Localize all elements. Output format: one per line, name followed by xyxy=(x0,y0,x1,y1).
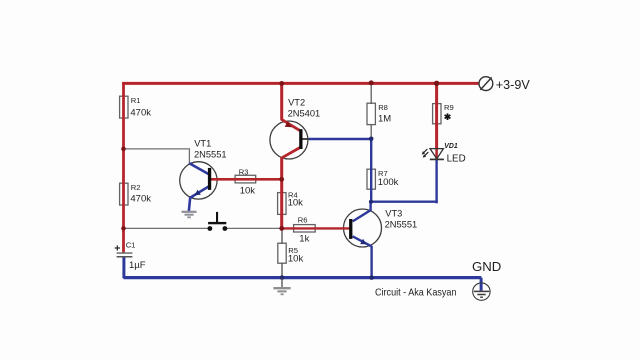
wire: gray R8 top lead from +V rail xyxy=(370,83,372,104)
junction node: top rail / R9 xyxy=(434,81,439,86)
wire: blue VT3 emitter to bottom rail xyxy=(370,246,372,278)
wire: red VT1 base through R3 to x=282 node xyxy=(211,178,283,181)
wire: gray button wire from left rail to node under R4 xyxy=(124,227,211,229)
svg-text:10k: 10k xyxy=(240,186,256,197)
transistor VT3 emitter lead (blue diagonal) xyxy=(353,236,372,246)
svg-text:GND: GND xyxy=(472,259,501,274)
wire: black VT2 base stub xyxy=(302,138,310,140)
svg-text:470k: 470k xyxy=(130,107,151,118)
ground symbol below R5 on bottom rail xyxy=(273,278,290,294)
svg-text:+3-9V: +3-9V xyxy=(496,78,531,92)
junction node: top rail / R8 xyxy=(369,80,374,85)
wire: left rail (red) from top rail to C1 xyxy=(122,82,125,252)
svg-text:R2: R2 xyxy=(131,183,141,192)
wire: blue vertical through R7 xyxy=(370,139,372,203)
svg-text:VT1: VT1 xyxy=(194,138,211,148)
GND terminal (circle with earth) xyxy=(473,283,490,300)
svg-text:1k: 1k xyxy=(299,233,309,244)
transistor VT3 emitter arrow xyxy=(360,239,366,245)
junction node: left rail / VT1 feed xyxy=(121,147,126,152)
wire: blue VT1 emitter down to ground xyxy=(189,197,190,211)
svg-text:10k: 10k xyxy=(288,198,304,209)
wire: red inside LED triangle to apex xyxy=(435,149,438,159)
junction node: VT2 base / R8 / R7 xyxy=(369,137,374,142)
junction node: left rail / button wire xyxy=(121,226,126,231)
wire: gray feed from left rail to VT1 collector xyxy=(124,149,190,164)
transistor VT2 collector lead (red diagonal) xyxy=(281,148,300,159)
resistor R1 body xyxy=(120,96,128,118)
transistor VT1 base bar xyxy=(208,168,211,190)
transistor VT2 circle xyxy=(270,121,308,159)
transistor VT2 emitter lead (red diagonal, PNP) xyxy=(281,119,300,130)
svg-text:1M: 1M xyxy=(378,113,391,124)
svg-text:VT2: VT2 xyxy=(288,97,305,107)
capacitor C1 xyxy=(115,245,133,257)
transistor VT1 circle xyxy=(180,162,217,199)
junction node: bottom rail / VT3 emitter xyxy=(369,275,374,280)
transistor VT1 collector lead (blue diagonal) xyxy=(189,163,209,174)
resistor R7 body xyxy=(367,169,375,189)
svg-text:2N5551: 2N5551 xyxy=(194,150,227,160)
svg-text:470k: 470k xyxy=(130,194,151,205)
resistor R8 body xyxy=(367,103,375,124)
junction node: top rail / VT2 column xyxy=(279,81,284,86)
transistor VT3 collector lead (blue diagonal + vertical) xyxy=(353,202,371,221)
wire: red R9 column from top rail through R9 to LED xyxy=(435,83,438,148)
wire: top +V rail (red) xyxy=(122,82,479,85)
transistor VT2 emitter arrow (points to base bar) xyxy=(285,121,292,127)
wire: gray R8 bottom lead to VT2 base node xyxy=(370,124,372,139)
svg-text:VT3: VT3 xyxy=(385,209,402,219)
ground symbol at VT1 emitter xyxy=(182,212,197,218)
svg-text:R3: R3 xyxy=(239,167,249,176)
svg-text:1µF: 1µF xyxy=(129,260,146,271)
svg-text:10k: 10k xyxy=(288,253,304,264)
+V supply terminal xyxy=(479,77,493,91)
wire: blue C1 bottom plate to bottom rail xyxy=(122,257,125,278)
wire: red vertical x=282 from VT2 collector down to R6 node xyxy=(280,157,283,229)
wire: gray R5 top lead xyxy=(281,228,283,243)
junction node: R4/R6/R5/button xyxy=(279,226,284,231)
wire: blue LED cathode down to horizontal xyxy=(435,160,437,204)
LED VD1 xyxy=(422,149,444,160)
svg-text:LED: LED xyxy=(447,153,466,164)
transistor VT1 emitter arrow xyxy=(195,190,201,196)
svg-text:C1: C1 xyxy=(126,240,136,249)
junction node: bottom rail / R5 ground xyxy=(280,275,285,280)
resistor R9 body xyxy=(433,104,441,124)
svg-text:2N5401: 2N5401 xyxy=(288,108,321,118)
wire: red vertical x=282 from top rail to VT2 emitter xyxy=(280,83,283,120)
value star (R9) xyxy=(445,113,451,120)
junction node: R7 / VT3 collector / LED return xyxy=(369,200,373,204)
push button S1 xyxy=(208,212,228,231)
svg-text:R8: R8 xyxy=(378,103,388,112)
resistor R4 body xyxy=(278,193,286,215)
junction node: R3 / VT2 collector column xyxy=(279,177,284,182)
transistor VT3 circle xyxy=(344,209,382,247)
transistor VT2 base bar xyxy=(299,129,302,149)
svg-text:R9: R9 xyxy=(444,103,454,112)
svg-text:Circuit - Aka Kasyan: Circuit - Aka Kasyan xyxy=(375,287,457,298)
wire: bottom ground rail (blue) xyxy=(123,276,481,279)
wire: blue VT2 base to R8/R7 node xyxy=(309,138,372,140)
transistor VT1 emitter lead (blue diagonal) xyxy=(190,186,209,197)
wire: blue horizontal node to LED column xyxy=(370,200,438,202)
wire: gray button wire right half to node under R4 xyxy=(225,227,283,229)
svg-text:R1: R1 xyxy=(131,96,141,105)
svg-text:R6: R6 xyxy=(298,215,308,224)
wire: blue stub into GND terminal xyxy=(480,278,483,291)
resistor R3 body xyxy=(235,175,256,183)
transistor VT3 base bar xyxy=(349,219,352,239)
resistor R2 body xyxy=(120,183,128,205)
svg-text:100k: 100k xyxy=(378,177,399,188)
resistor R5 body xyxy=(278,243,286,263)
resistor R6 body xyxy=(294,225,316,232)
svg-text:VD1: VD1 xyxy=(444,143,458,150)
wire: red node through R6 to VT3 base xyxy=(282,227,350,229)
wire: gray R5 bottom lead to bottom rail xyxy=(281,263,283,278)
svg-text:2N5551: 2N5551 xyxy=(385,220,418,230)
